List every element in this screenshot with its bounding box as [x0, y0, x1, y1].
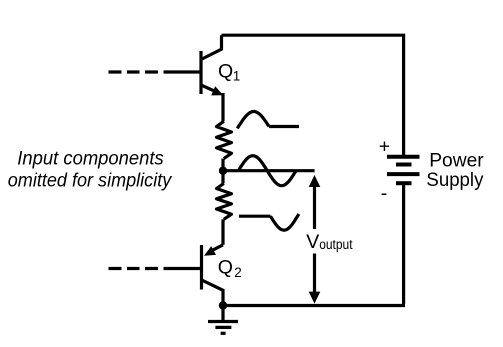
svg-text:output: output [319, 237, 353, 252]
svg-text:V: V [306, 231, 319, 253]
wire Q2 base lead (dashed input) [109, 267, 202, 270]
node ground junction dot [219, 301, 227, 309]
wire output node to resistor R2 [221, 171, 224, 184]
transistor Q2 collector lead [202, 280, 224, 303]
transistor Q2 base bar [200, 245, 203, 290]
transistor Q1 emitter lead with arrow [201, 85, 223, 95]
wire Q1 emitter to resistor R1 [221, 93, 224, 121]
svg-text:1: 1 [233, 68, 241, 83]
wire R2 to Q2 emitter [221, 219, 224, 245]
wire Q1 base lead (dashed input) [109, 70, 202, 73]
transistor Q1 base bar [199, 51, 202, 94]
svg-text:omitted for simplicity: omitted for simplicity [8, 169, 173, 191]
svg-text:Q: Q [218, 61, 233, 83]
label Voutput with measurement arrows [306, 175, 353, 304]
wire R1 to output node [221, 159, 224, 171]
wire top rail from Q1 collector to power supply + [222, 34, 404, 156]
label annotation: Input components omitted for simplicity [8, 147, 173, 191]
svg-text:-: - [381, 183, 388, 205]
battery V1 (power supply) [387, 157, 420, 184]
svg-text:2: 2 [234, 265, 242, 280]
svg-text:Q: Q [218, 256, 233, 278]
waveform positive half-cycle (Q1 side) [237, 112, 299, 129]
resistor R1 [217, 121, 232, 158]
label Q1 [218, 61, 240, 84]
wire output node to Voutput arrow [223, 169, 315, 172]
label Q2 [218, 256, 242, 279]
ground symbol [208, 306, 238, 334]
wire right rail from battery - down to bottom rail [223, 185, 405, 306]
svg-text:Supply: Supply [426, 169, 483, 191]
svg-text:Input components: Input components [17, 147, 164, 169]
resistor R2 [217, 183, 232, 219]
transistor Q2 emitter lead with arrow [204, 245, 223, 256]
waveform full sine at output [238, 156, 296, 186]
svg-text:+: + [379, 136, 390, 158]
node output junction dot [219, 167, 227, 175]
transistor Q1 collector lead [201, 35, 222, 59]
waveform negative half-cycle (Q2 side) [239, 214, 299, 230]
